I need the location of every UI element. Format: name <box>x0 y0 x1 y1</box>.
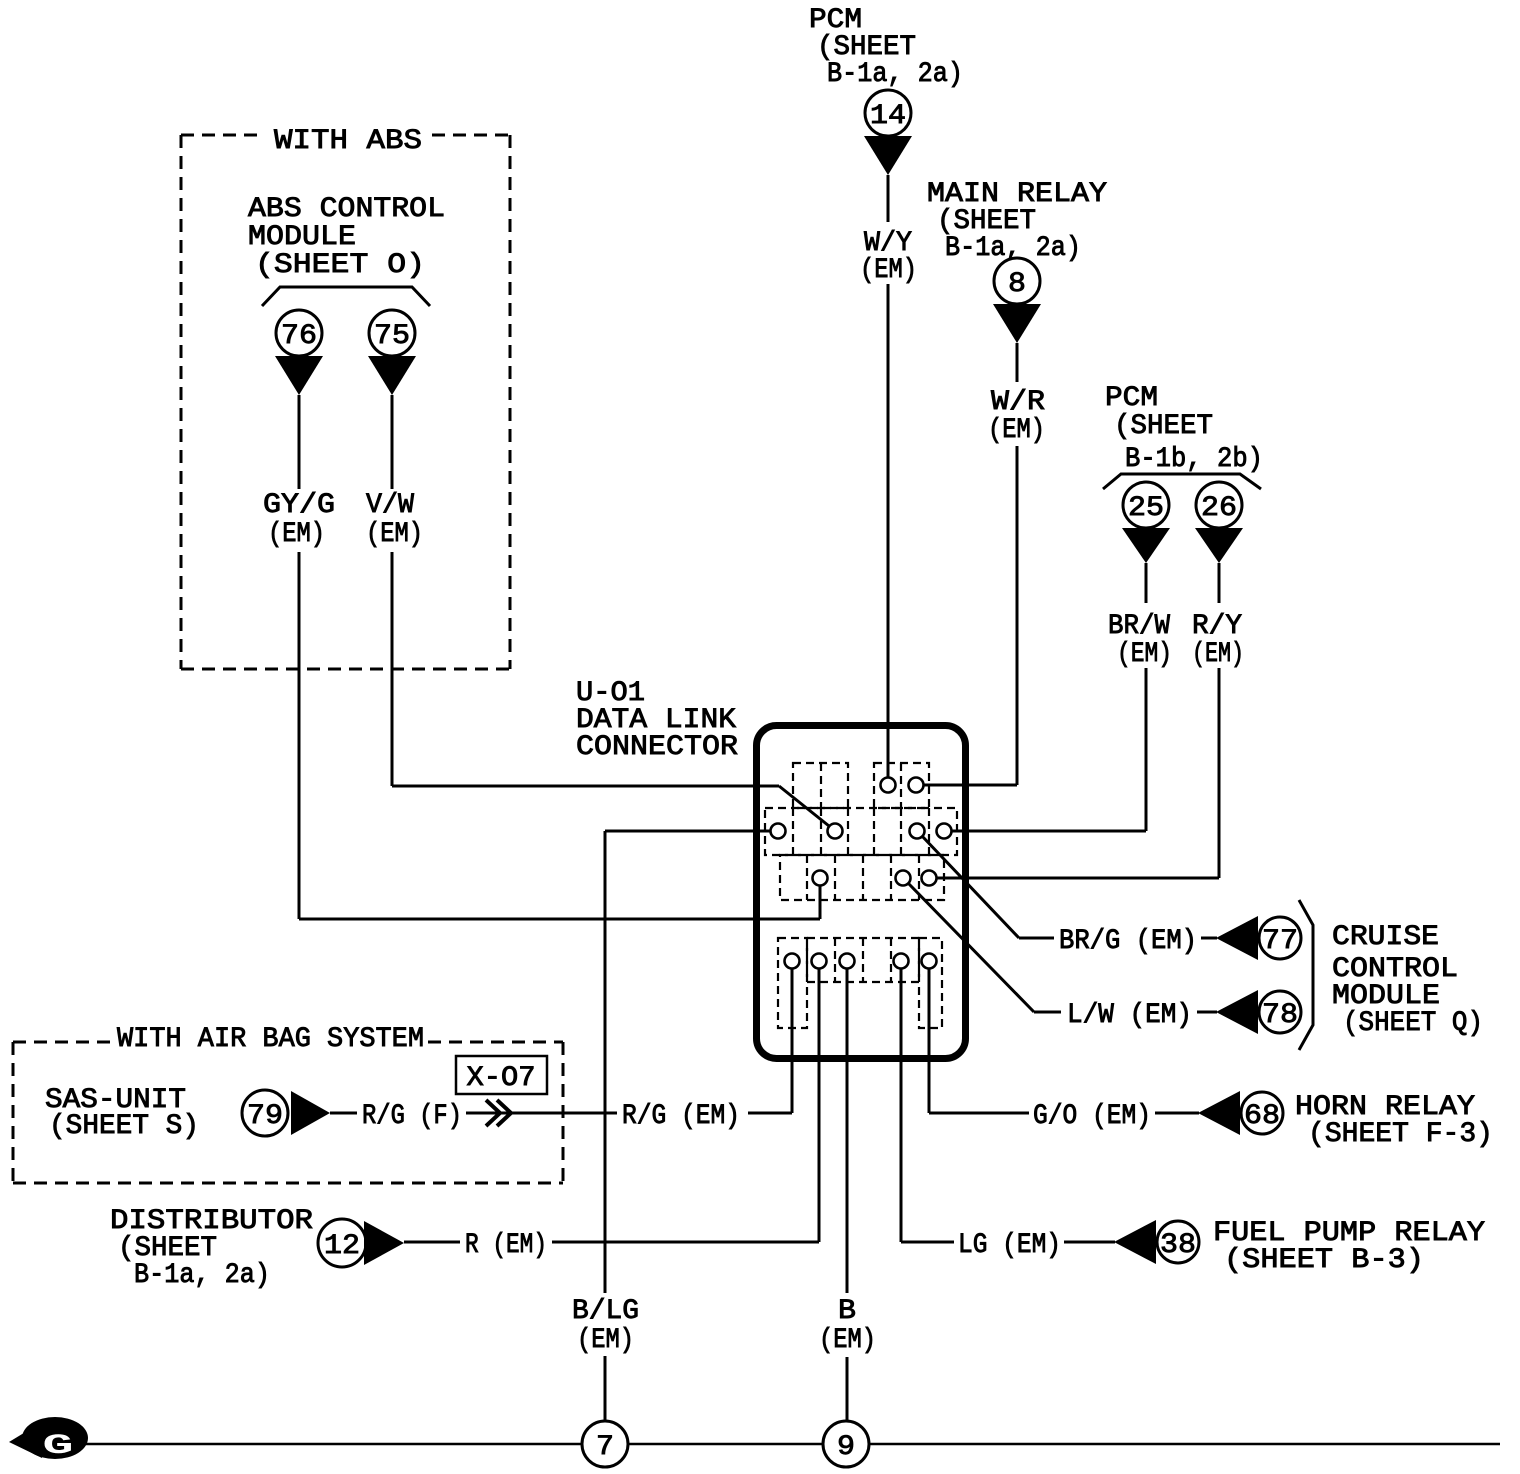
svg-text:26: 26 <box>1201 493 1237 524</box>
svg-text:BR/W: BR/W <box>1108 611 1170 642</box>
arrow 75 (to ABS module) <box>368 356 416 395</box>
svg-text:75: 75 <box>374 321 410 352</box>
wire V/W horizontal <box>392 785 779 788</box>
pin row2-4 (BR/W) <box>937 824 952 839</box>
svg-text:R/Y: R/Y <box>1192 611 1242 642</box>
wire L/W diagonal from pin <box>908 883 1034 1012</box>
svg-text:G/O (EM): G/O (EM) <box>1033 1101 1151 1132</box>
svg-text:(EM): (EM) <box>819 1325 876 1356</box>
arrow 12 (from distributor) <box>364 1221 404 1265</box>
svg-text:(EM): (EM) <box>577 1325 634 1356</box>
terminal circle 76 <box>276 310 322 356</box>
connector dashed cavity top-left <box>793 763 848 808</box>
svg-text:R/G (EM): R/G (EM) <box>622 1101 740 1132</box>
pin row1-1 (W/Y) <box>881 778 896 793</box>
terminal circle 79 <box>242 1090 288 1136</box>
svg-text:12: 12 <box>324 1231 360 1262</box>
svg-text:7: 7 <box>596 1432 614 1463</box>
svg-text:(SHEET Q): (SHEET Q) <box>1343 1008 1483 1039</box>
pin row4-3 (B) <box>840 954 855 969</box>
terminal circle 77 <box>1259 917 1301 959</box>
svg-text:(SHEET: (SHEET <box>1114 411 1213 442</box>
wire LG to arrow 38 <box>1064 1241 1115 1244</box>
svg-text:PCM: PCM <box>1105 383 1158 414</box>
terminal circle 38 <box>1157 1221 1199 1263</box>
wire L/W to arrow 78 <box>1197 1011 1217 1014</box>
wire B/LG vertical lower <box>604 1356 607 1421</box>
connector dashed cavity top-right <box>874 763 929 808</box>
arrow 8 (to main relay) <box>993 304 1041 343</box>
svg-text:(EM): (EM) <box>988 415 1045 446</box>
svg-text:(SHEET O): (SHEET O) <box>255 250 425 281</box>
arrow 25 (to PCM) <box>1122 528 1170 563</box>
pin row1-2 (W/R) <box>909 778 924 793</box>
svg-text:GY/G: GY/G <box>263 490 335 521</box>
svg-text:78: 78 <box>1262 1000 1298 1031</box>
svg-text:(EM): (EM) <box>860 255 917 286</box>
wire B vertical upper <box>846 968 849 1293</box>
svg-text:(EM): (EM) <box>366 519 423 550</box>
wire W/R vertical <box>1016 446 1019 785</box>
wire W/R horizontal to pin <box>923 784 1017 787</box>
wire BR/G diagonal from pin <box>922 836 1019 938</box>
svg-text:BR/G (EM): BR/G (EM) <box>1059 926 1197 957</box>
svg-text:(SHEET F-3): (SHEET F-3) <box>1308 1119 1493 1150</box>
wire R (EM) stub <box>404 1241 460 1244</box>
svg-text:MODULE: MODULE <box>248 222 356 253</box>
svg-text:(EM): (EM) <box>1192 639 1244 670</box>
wire G/O to arrow 68 <box>1155 1112 1199 1115</box>
arrow 76 (to ABS module) <box>275 356 323 395</box>
ground symbol G <box>22 1417 88 1459</box>
svg-text:WITH ABS: WITH ABS <box>274 126 422 157</box>
pin row3-3 (R/Y) <box>922 871 937 886</box>
connector box X-07 <box>456 1056 547 1094</box>
connector U-01 body <box>757 726 966 1059</box>
wire G/O (EM) stub <box>929 1112 1029 1115</box>
svg-text:(SHEET B-3): (SHEET B-3) <box>1224 1245 1424 1276</box>
wire BR/W horizontal to pin <box>951 830 1146 833</box>
svg-text:14: 14 <box>870 101 906 132</box>
wire BR/W upper <box>1145 563 1148 603</box>
svg-text:38: 38 <box>1160 1230 1196 1261</box>
terminal circle 8 <box>994 258 1040 304</box>
wire V/W vertical <box>391 552 394 786</box>
svg-text:B: B <box>838 1296 856 1327</box>
bracket over 25/26 <box>1103 474 1261 489</box>
connector dashed cavity bottom group <box>778 938 807 1028</box>
splice circle 7 <box>582 1421 628 1467</box>
wire BR/G stub <box>1019 937 1054 940</box>
wire GY/G upper <box>298 395 301 489</box>
wire G/O (EM) vertical from pin <box>928 968 931 1113</box>
svg-text:CRUISE: CRUISE <box>1332 922 1439 953</box>
ground bus wire <box>85 1443 1500 1445</box>
wire BR/G to arrow 77 <box>1201 937 1217 940</box>
svg-text:(EM): (EM) <box>1117 639 1172 670</box>
terminal circle 78 <box>1259 991 1301 1033</box>
wire R/Y horizontal to pin <box>936 877 1219 880</box>
svg-text:(EM): (EM) <box>268 519 325 550</box>
wire R (EM) horizontal <box>552 1241 819 1244</box>
pin row2-2 (V/W) <box>828 824 843 839</box>
svg-text:ABS CONTROL: ABS CONTROL <box>248 194 445 225</box>
connector dashed cavity row2 band <box>765 808 957 855</box>
terminal circle 26 <box>1196 482 1242 528</box>
svg-text:R/G (F): R/G (F) <box>362 1101 462 1132</box>
dashed box WITH AIR BAG SYSTEM <box>13 1041 113 1044</box>
svg-text:CONNECTOR: CONNECTOR <box>576 732 738 763</box>
wire B/LG horizontal from pin <box>605 830 771 833</box>
pin row4-5 (G/O) <box>922 954 937 969</box>
svg-text:W/R: W/R <box>991 387 1045 418</box>
pin row4-4 (LG) <box>894 954 909 969</box>
dashed box WITH ABS <box>181 134 260 137</box>
wire R/G through splice <box>466 1112 617 1115</box>
svg-text:B-1b, 2b): B-1b, 2b) <box>1125 444 1263 475</box>
svg-text:B/LG: B/LG <box>572 1296 639 1327</box>
svg-text:LG (EM): LG (EM) <box>958 1230 1061 1261</box>
wire R/G (EM) stub <box>748 1112 792 1115</box>
terminal circle 14 <box>865 90 911 136</box>
wire W/R upper <box>1016 343 1019 382</box>
pin row2-1 (B/LG) <box>771 824 786 839</box>
arrow 26 (to PCM) <box>1195 528 1243 563</box>
svg-text:68: 68 <box>1244 1101 1280 1132</box>
wire B/LG vertical upper <box>604 831 607 1293</box>
connector dashed cavity row3 band <box>780 855 944 900</box>
wire GY/G riser to pin <box>819 886 822 919</box>
bracket over 76/75 <box>262 287 430 306</box>
svg-text:R (EM): R (EM) <box>465 1230 547 1261</box>
pin row3-2 (L/W) <box>896 871 911 886</box>
wire LG (EM) vertical from pin <box>900 968 903 1242</box>
svg-text:B-1a, 2a): B-1a, 2a) <box>134 1260 270 1291</box>
svg-text:(SHEET S): (SHEET S) <box>49 1111 199 1142</box>
svg-text:8: 8 <box>1008 269 1026 300</box>
svg-text:77: 77 <box>1262 926 1298 957</box>
svg-text:B-1a, 2a): B-1a, 2a) <box>827 59 963 90</box>
svg-text:9: 9 <box>837 1432 855 1463</box>
wire V/W upper <box>391 395 394 489</box>
arrow 79 (from SAS unit) <box>291 1091 330 1135</box>
terminal circle 25 <box>1123 482 1169 528</box>
wire R/Y vertical <box>1218 668 1221 878</box>
pin row2-3 (BR/G) <box>910 824 925 839</box>
wire B vertical lower <box>846 1357 849 1421</box>
wire GY/G vertical <box>298 552 301 919</box>
wire BR/W vertical <box>1145 668 1148 831</box>
arrow 77 (to cruise module) <box>1216 916 1258 960</box>
pin row4-1 (R/G) <box>785 954 800 969</box>
svg-text:79: 79 <box>247 1101 283 1132</box>
arrow 38 (to fuel pump relay) <box>1114 1220 1156 1264</box>
terminal circle 12 <box>318 1219 366 1267</box>
wire L/W stub <box>1034 1011 1061 1014</box>
arrow 78 (to cruise module) <box>1216 990 1258 1034</box>
svg-text:X-O7: X-O7 <box>467 1063 536 1094</box>
pin row3-1 (GY/G) <box>813 871 828 886</box>
wire W/Y to connector pin <box>887 284 890 778</box>
terminal circle 68 <box>1241 1092 1283 1134</box>
pin row4-2 (R) <box>812 954 827 969</box>
svg-text:76: 76 <box>281 321 317 352</box>
wire GY/G horizontal <box>299 918 820 921</box>
wire LG (EM) stub <box>901 1241 954 1244</box>
svg-text:L/W (EM): L/W (EM) <box>1067 1000 1192 1031</box>
wire R/G (EM) vertical from pin <box>791 968 794 1113</box>
wire R (EM) vertical from pin <box>818 968 821 1242</box>
svg-text:V/W: V/W <box>366 490 414 521</box>
terminal circle 75 <box>369 310 415 356</box>
splice circle 9 <box>823 1421 869 1467</box>
brace cruise control group <box>1299 900 1313 1050</box>
svg-text:WITH AIR BAG SYSTEM: WITH AIR BAG SYSTEM <box>117 1024 424 1055</box>
in-line connector chevrons X-07 <box>486 1100 500 1126</box>
wire W/Y upper <box>887 175 890 222</box>
arrow 14 (to PCM) <box>864 136 912 175</box>
svg-text:25: 25 <box>1128 493 1164 524</box>
arrow 68 (to horn relay) <box>1198 1091 1240 1135</box>
svg-text:G: G <box>43 1431 74 1462</box>
wire R/Y upper <box>1218 563 1221 603</box>
wire R/G (F) stub <box>330 1112 357 1115</box>
wire V/W diagonal to pin <box>779 786 829 826</box>
